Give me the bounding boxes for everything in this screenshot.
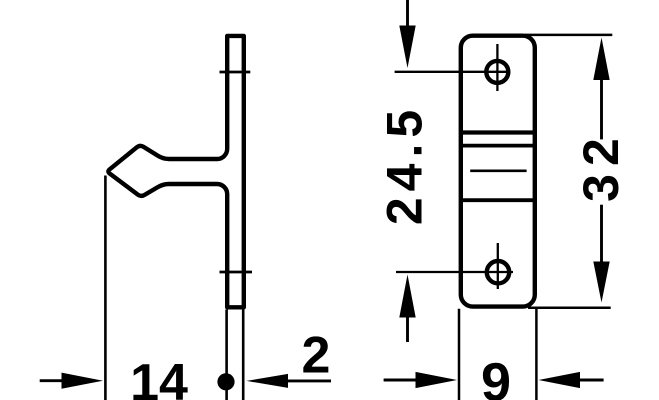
svg-text:14: 14 <box>130 354 188 400</box>
svg-text:24.5: 24.5 <box>377 104 433 225</box>
svg-text:2: 2 <box>302 327 331 385</box>
svg-text:9: 9 <box>481 353 511 400</box>
svg-text:32: 32 <box>573 130 629 202</box>
